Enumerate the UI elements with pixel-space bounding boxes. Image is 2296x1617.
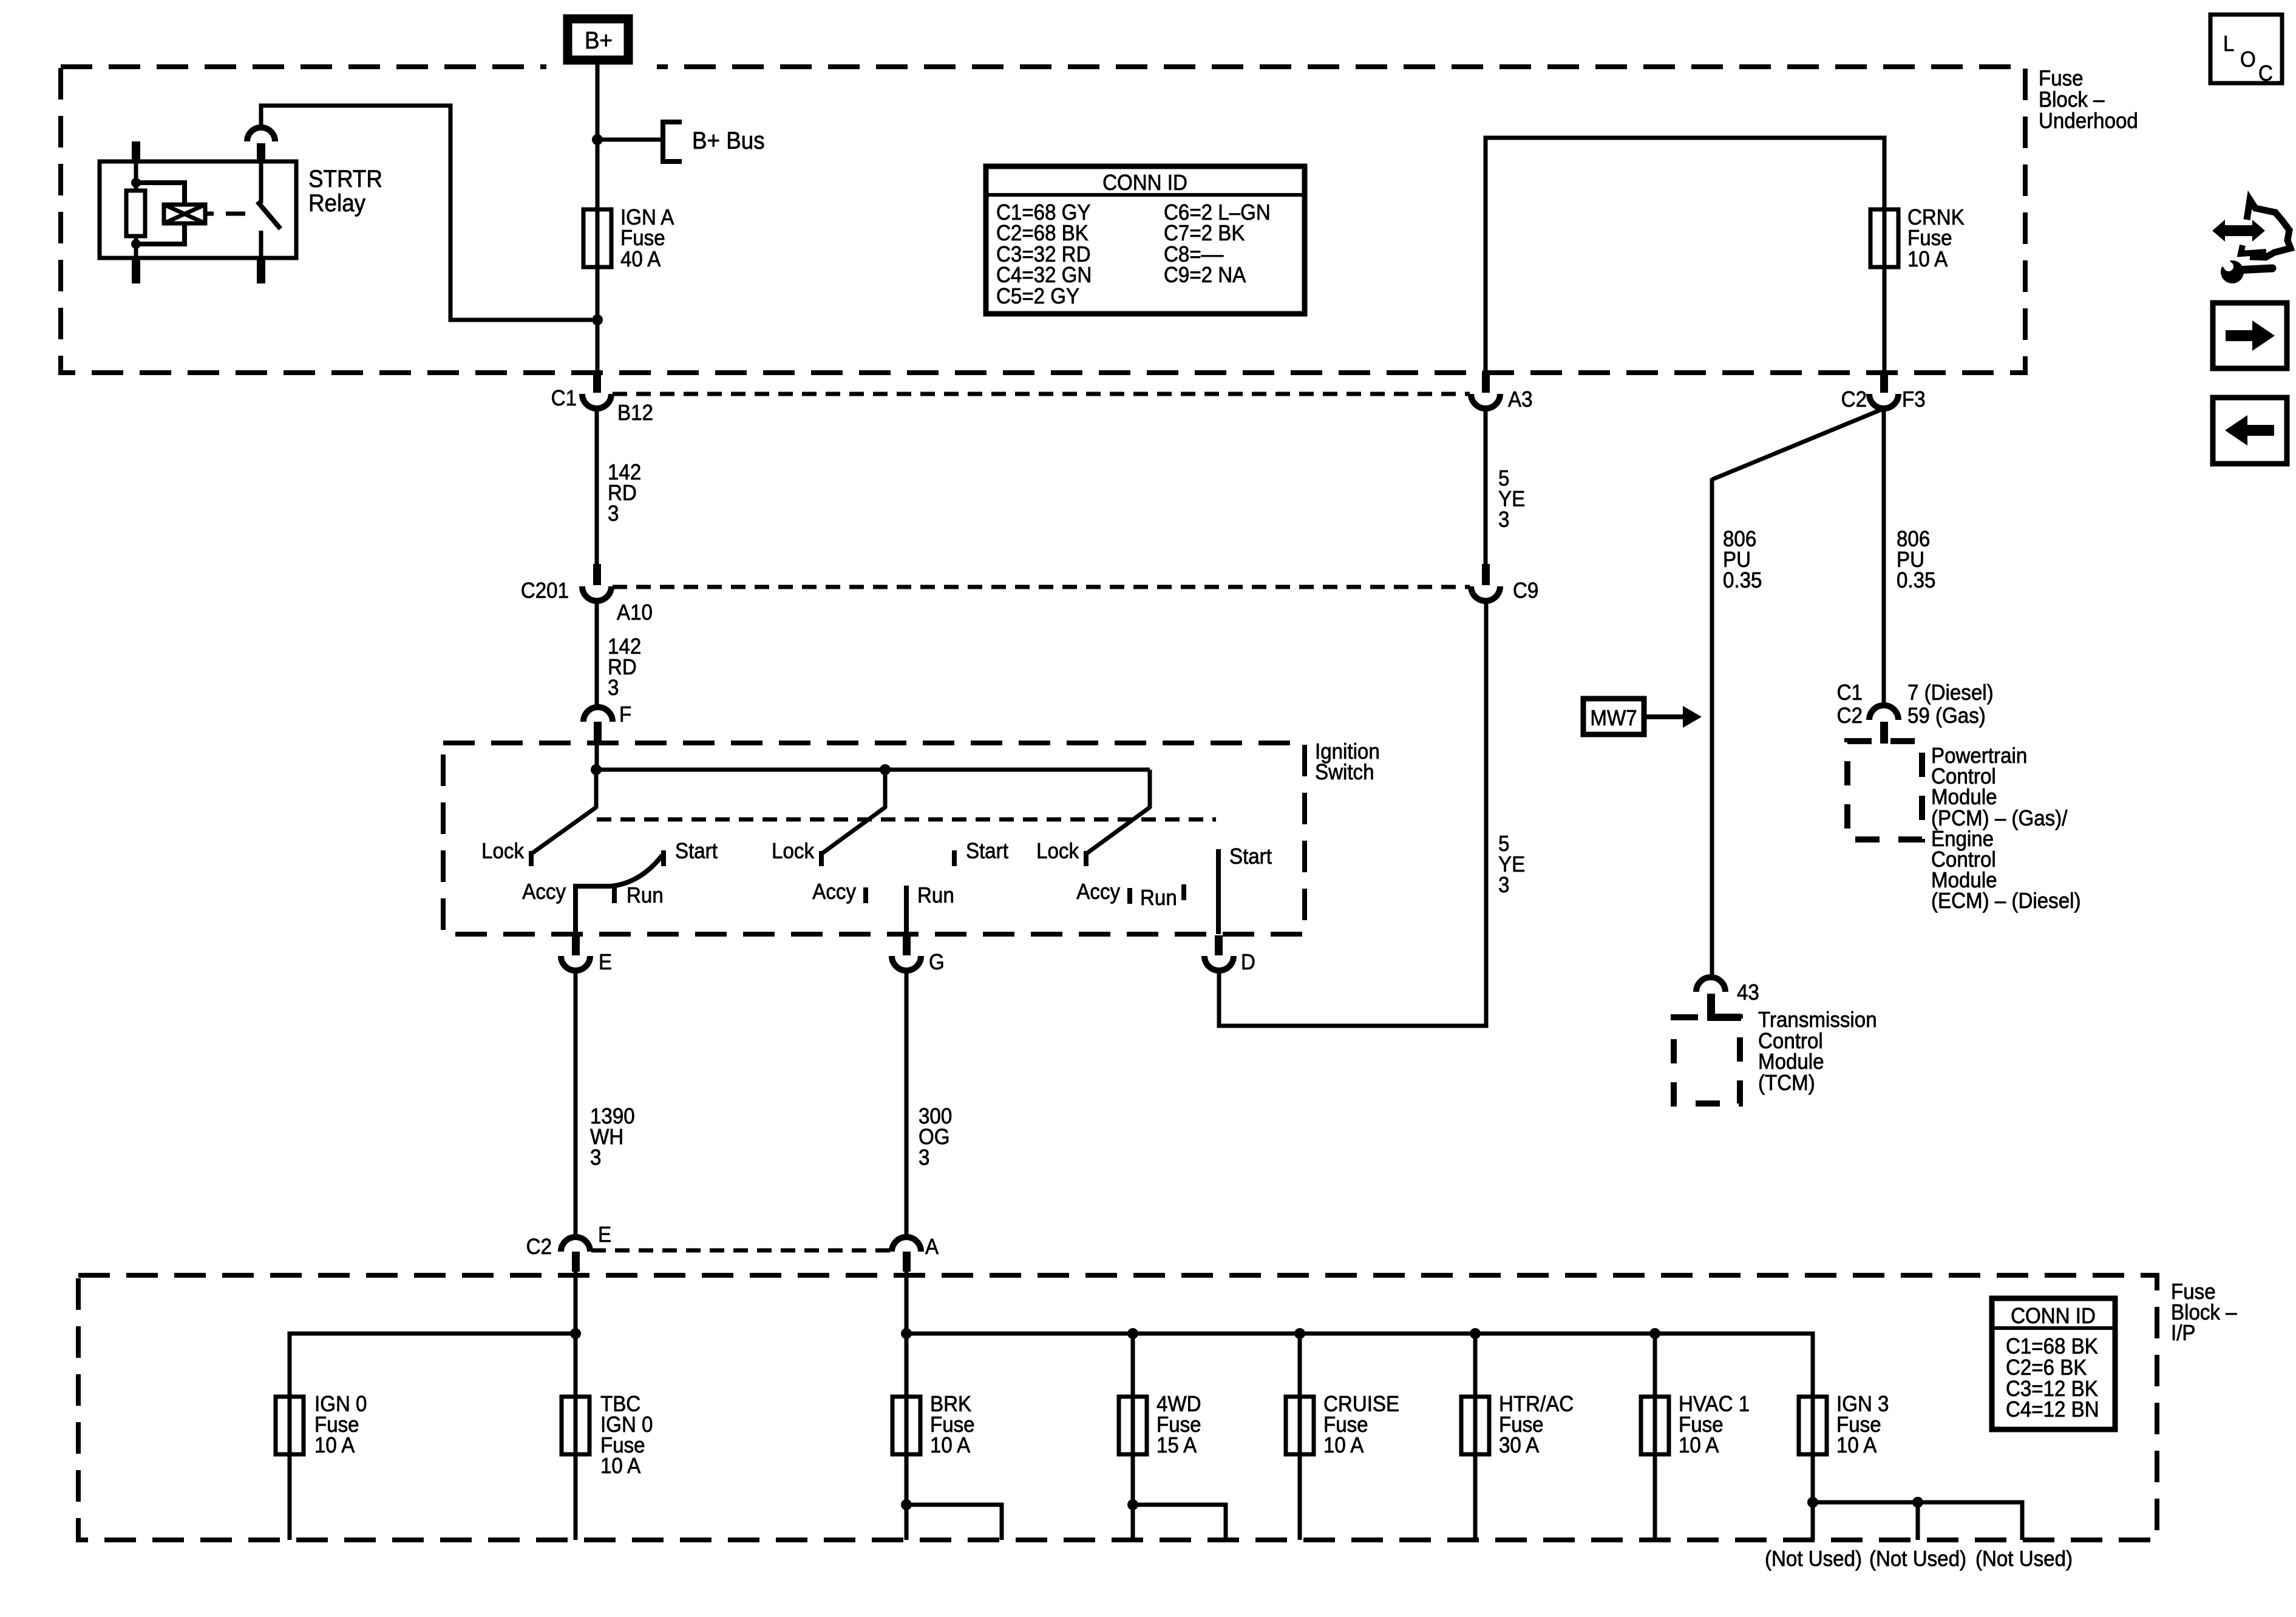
- icon wrench: [2235, 268, 2272, 270]
- relay internal wire left: [134, 161, 138, 191]
- connector C9 arc: [1471, 586, 1500, 601]
- svg-text:O: O: [2240, 48, 2256, 72]
- svg-text:10 A: 10 A: [600, 1454, 640, 1479]
- svg-text:L: L: [2223, 32, 2234, 56]
- wire IGN 3 below fuse: [1811, 1397, 1815, 1540]
- junction IGN 3 stub: [1807, 1497, 1818, 1508]
- wire IGN 3 stub horizontal: [1813, 1502, 2022, 1540]
- svg-text:Fuse: Fuse: [1907, 226, 1952, 251]
- junction HVAC 1: [1649, 1328, 1660, 1339]
- svg-text:C9: C9: [1513, 579, 1538, 603]
- relay switch blade: [257, 202, 280, 229]
- wire IGN A fuse to C1: [596, 209, 600, 373]
- wire A into I/P: [905, 1272, 909, 1334]
- label Transmission Control Module (TCM): [1758, 1008, 1877, 1096]
- wire label 142 RD 3 lower: [608, 635, 641, 700]
- label Powertrain Control Module: [1931, 744, 2080, 914]
- svg-text:C2: C2: [1837, 704, 1863, 728]
- svg-text:A10: A10: [617, 601, 653, 625]
- svg-text:(ECM) – (Diesel): (ECM) – (Diesel): [1931, 889, 2080, 914]
- connector A tick: [903, 1252, 911, 1272]
- wafer1 Lock contact tick: [529, 851, 534, 866]
- svg-text:15 A: 15 A: [1156, 1434, 1197, 1458]
- connector 43 (TCM) tick: [1707, 994, 1715, 1015]
- wafer3 rotor diagonal: [1087, 807, 1150, 853]
- wafer1 rotor diagonal: [532, 807, 596, 853]
- label Ignition Switch: [1315, 740, 1380, 785]
- wafer2 Lock contact tick: [819, 851, 824, 866]
- LOC nav box: [2210, 15, 2282, 86]
- svg-text:C2: C2: [1841, 388, 1867, 412]
- icon double arrow: [2212, 220, 2265, 242]
- svg-text:C201: C201: [521, 579, 569, 603]
- junction relay feed: [592, 314, 603, 325]
- wire HTR/AC below fuse: [1473, 1397, 1478, 1540]
- value label BRK Fuse 10 A: [930, 1392, 975, 1458]
- svg-text:Run: Run: [917, 884, 954, 908]
- svg-text:10 A: 10 A: [1836, 1434, 1877, 1458]
- wafer2 drop wire: [883, 770, 888, 808]
- connector E arc: [561, 956, 590, 971]
- fuse CRUISE: [1286, 1397, 1314, 1454]
- svg-text:Fuse: Fuse: [620, 226, 665, 251]
- value label TBC IGN 0 Fuse 10 A: [600, 1392, 653, 1479]
- connector in-line dotted C1 to A3: [613, 392, 1470, 396]
- wafer1 Start contact tick: [661, 850, 666, 866]
- relay coil: [164, 205, 205, 223]
- fuse 4WD: [1119, 1397, 1147, 1454]
- junction 4WD: [1127, 1328, 1138, 1339]
- connector in-line dotted C201 to C9: [613, 585, 1470, 589]
- wire label 5 YE 3 upper: [1498, 467, 1525, 532]
- wire label 142 RD 3 upper: [608, 461, 641, 526]
- wire C1 to C201 (142 RD): [595, 408, 599, 565]
- svg-text:C4=32 GN: C4=32 GN: [996, 263, 1092, 288]
- wafer2 rotor diagonal: [822, 807, 885, 853]
- svg-text:(Not Used): (Not Used): [1765, 1547, 1862, 1571]
- connector A3 tick: [1482, 371, 1490, 393]
- switch position dotted line: [597, 818, 1216, 822]
- ignition feed bus: [596, 768, 1150, 772]
- svg-text:STRTR: STRTR: [308, 166, 382, 193]
- wire CRUISE below fuse: [1298, 1397, 1302, 1540]
- mask under B+: [546, 62, 657, 72]
- wafer3 Run contact tick: [1181, 884, 1186, 900]
- relay pin 30 connector arc: [247, 127, 275, 141]
- TCM pin stub: [1711, 1013, 1741, 1017]
- connector D arc: [1204, 956, 1234, 971]
- fuse IGN 0: [276, 1397, 304, 1454]
- wire BRK below fuse: [905, 1397, 909, 1540]
- wire label 5 YE 3 lower: [1498, 832, 1525, 898]
- svg-text:3: 3: [1498, 508, 1509, 532]
- svg-text:Accy: Accy: [1076, 880, 1120, 904]
- svg-text:C1: C1: [551, 387, 577, 411]
- svg-text:10 A: 10 A: [930, 1434, 970, 1458]
- svg-text:C2=68 BK: C2=68 BK: [996, 222, 1089, 246]
- TCM module box: [1674, 1017, 1740, 1103]
- svg-text:C: C: [2258, 62, 2273, 86]
- svg-text:30 A: 30 A: [1499, 1434, 1539, 1458]
- fuse BRK: [892, 1397, 920, 1454]
- relay switch fixed contact top: [259, 161, 263, 203]
- wire 4WD stub: [1133, 1505, 1226, 1540]
- relay pin stub bottom-left: [132, 258, 140, 283]
- svg-text:10 A: 10 A: [1907, 248, 1948, 272]
- relay pin stub bottom-right: [257, 258, 265, 283]
- svg-text:CONN ID: CONN ID: [2011, 1304, 2096, 1329]
- svg-text:B+ Bus: B+ Bus: [692, 127, 765, 155]
- wire G to A (300 OG): [905, 970, 909, 1238]
- relay resistor: [126, 191, 145, 236]
- junction 4WD stub: [1127, 1499, 1138, 1510]
- svg-text:10 A: 10 A: [1323, 1434, 1364, 1458]
- svg-text:Start: Start: [966, 839, 1008, 864]
- connector 43 (TCM) arc: [1696, 977, 1725, 992]
- connector C2 E tick: [572, 1252, 580, 1272]
- svg-text:C1: C1: [1837, 681, 1863, 705]
- junction BRK stub: [901, 1499, 912, 1510]
- svg-text:MW7: MW7: [1590, 707, 1637, 731]
- svg-text:A: A: [925, 1235, 939, 1259]
- relay switch fixed contact bottom: [259, 231, 263, 258]
- connector A3 arc: [1471, 394, 1500, 408]
- wire coil bottom branch: [136, 223, 185, 244]
- svg-text:7 (Diesel): 7 (Diesel): [1907, 681, 1994, 705]
- wire HVAC 1 below fuse: [1653, 1397, 1657, 1540]
- svg-text:Fuse: Fuse: [2039, 67, 2084, 91]
- value label HVAC 1 Fuse 10 A: [1679, 1392, 1750, 1458]
- svg-text:C2=6 BK: C2=6 BK: [2006, 1356, 2087, 1380]
- value label CRNK Fuse 10 A: [1907, 206, 1965, 272]
- wire to B+ bus: [597, 138, 662, 142]
- wire A3 top horizontal: [1486, 138, 1884, 372]
- connector G arc: [892, 956, 921, 971]
- wafer1 drop wire: [594, 770, 599, 808]
- connector C201 arc: [582, 586, 611, 601]
- svg-text:Transmission: Transmission: [1758, 1008, 1877, 1032]
- wafer3 Start wiper wire to D: [1216, 849, 1221, 934]
- relay pin stub top-left: [132, 141, 140, 161]
- svg-text:3: 3: [608, 676, 619, 700]
- wafer1 Run contact tick: [612, 887, 617, 903]
- connector in-line dotted C2E to A: [591, 1249, 891, 1253]
- svg-text:59 (Gas): 59 (Gas): [1907, 704, 1986, 728]
- wire D to crank net: [1219, 601, 1486, 1026]
- wire coil top branch: [136, 183, 185, 205]
- svg-text:C4=12 BN: C4=12 BN: [2006, 1398, 2099, 1422]
- fuse block underhood box: [61, 67, 2025, 373]
- svg-text:0.35: 0.35: [1723, 569, 1762, 593]
- wafer1 wiper curve to Start: [611, 855, 662, 886]
- wire TBC branch: [574, 1334, 578, 1397]
- coil actuator dashes: [205, 212, 214, 216]
- svg-text:3: 3: [608, 502, 619, 526]
- value label IGN A Fuse 40 A: [620, 206, 674, 272]
- svg-text:Lock: Lock: [772, 839, 815, 864]
- I/P left bus: [290, 1334, 576, 1397]
- connector C1 C2 (PCM) arc: [1869, 705, 1898, 720]
- svg-text:Start: Start: [1229, 845, 1272, 869]
- svg-text:40 A: 40 A: [620, 248, 661, 272]
- wire label 1390 WH 3: [590, 1105, 635, 1170]
- wire diagonal F3 branch: [1712, 409, 1883, 480]
- wire label 806 PU 0.35 right: [1897, 527, 1935, 593]
- svg-text:(Not Used): (Not Used): [1975, 1547, 2073, 1571]
- wafer3 drop wire from bus corner: [1148, 770, 1152, 808]
- wire E to C2 E (1390 WH): [574, 970, 578, 1238]
- wire E into I/P: [574, 1272, 578, 1334]
- relay STRTR box: [100, 161, 296, 258]
- junction wafer1: [591, 764, 602, 775]
- wire label 806 PU 0.35 left: [1723, 527, 1762, 593]
- svg-text:10 A: 10 A: [314, 1434, 355, 1458]
- wire HVAC 1 branch: [1653, 1334, 1657, 1397]
- value label 4WD Fuse 15 A: [1156, 1392, 1201, 1458]
- svg-text:Lock: Lock: [1036, 839, 1079, 864]
- connector E tick: [572, 935, 580, 955]
- svg-text:10 A: 10 A: [1679, 1434, 1719, 1458]
- connector C1 C2 (PCM) tick: [1880, 722, 1888, 744]
- wire B+ down to IGN A fuse: [596, 64, 600, 209]
- svg-text:(Not Used): (Not Used): [1869, 1547, 1966, 1571]
- fuse IGN 3: [1799, 1397, 1827, 1454]
- svg-text:Run: Run: [627, 884, 664, 908]
- connector C201 tick: [593, 564, 601, 585]
- svg-text:Module: Module: [1931, 785, 1997, 810]
- wire CRUISE branch: [1298, 1334, 1302, 1397]
- wire F into switch: [595, 742, 599, 770]
- B+ bus bar: [663, 122, 682, 161]
- ignition switch box: [443, 743, 1305, 934]
- wire label 300 OG 3: [919, 1105, 952, 1170]
- connector C2 E arc: [561, 1237, 590, 1252]
- svg-text:C5=2 GY: C5=2 GY: [996, 285, 1079, 309]
- svg-text:Switch: Switch: [1315, 761, 1374, 785]
- wafer3 Lock contact tick: [1084, 851, 1089, 866]
- junction HTR/AC: [1470, 1328, 1481, 1339]
- svg-text:Start: Start: [675, 839, 718, 864]
- svg-text:43: 43: [1737, 981, 1759, 1005]
- svg-text:3: 3: [919, 1146, 929, 1170]
- svg-text:C2: C2: [526, 1235, 552, 1259]
- junction B+ bus: [592, 134, 603, 145]
- svg-text:A3: A3: [1508, 388, 1532, 412]
- svg-text:E: E: [599, 951, 612, 975]
- svg-text:B12: B12: [617, 401, 653, 425]
- svg-text:C7=2 BK: C7=2 BK: [1164, 222, 1245, 246]
- label Fuse Block - I/P: [2171, 1280, 2237, 1346]
- wire IGN 0 to box edge: [288, 1397, 292, 1540]
- connector C1 tick: [593, 371, 601, 393]
- svg-text:E: E: [598, 1223, 611, 1247]
- connector C9 tick: [1482, 564, 1490, 585]
- value label HTR/AC Fuse 30 A: [1499, 1392, 1574, 1458]
- connector G tick: [903, 935, 911, 955]
- fuse IGN A 40A: [583, 209, 611, 267]
- wafer2 Start contact tick: [952, 850, 957, 866]
- svg-text:Run: Run: [1140, 886, 1177, 910]
- wafer1 wiper wire to E: [576, 886, 611, 934]
- PCM module box: [1847, 741, 1922, 839]
- power symbol B+: [568, 19, 628, 60]
- vehicle service icon: [2212, 200, 2291, 283]
- wafer2 Accy contact tick: [863, 887, 868, 903]
- fuse HTR/AC: [1461, 1397, 1489, 1454]
- value label CRUISE Fuse 10 A: [1323, 1392, 1399, 1458]
- relay internal wire left lower: [134, 236, 138, 258]
- I/P right bus: [906, 1334, 1813, 1397]
- wire 806 PU left vertical: [1710, 478, 1714, 978]
- junction coil top: [131, 178, 141, 188]
- wire 4WD branch: [1131, 1334, 1135, 1397]
- svg-text:(TCM): (TCM): [1758, 1071, 1815, 1096]
- wafer2 wiper wire to G: [904, 886, 909, 934]
- fuse CRNK 10A: [1870, 209, 1898, 267]
- svg-text:Module: Module: [1758, 1050, 1824, 1074]
- MW7 arrow: [1646, 714, 1683, 719]
- svg-text:Accy: Accy: [812, 880, 856, 904]
- wire TBC to box edge: [574, 1397, 578, 1540]
- junction not used mid: [1912, 1497, 1923, 1508]
- junction wafer2: [880, 764, 891, 775]
- fuse HVAC 1: [1641, 1397, 1669, 1454]
- wire not used mid drop: [1916, 1502, 1920, 1540]
- svg-text:CONN ID: CONN ID: [1102, 171, 1187, 195]
- nav arrow box left: [2213, 398, 2287, 464]
- junction BRK: [901, 1328, 912, 1339]
- svg-text:3: 3: [590, 1146, 601, 1170]
- wire A3 to C9 (5 YE): [1484, 408, 1488, 565]
- connector A arc: [892, 1237, 921, 1252]
- wire BRK branch: [905, 1334, 909, 1397]
- value label IGN 3 Fuse 10 A: [1836, 1392, 1889, 1458]
- wire BRK stub: [906, 1505, 1002, 1540]
- fuse block I/P box: [78, 1275, 2157, 1540]
- connector C2 F3 tick: [1880, 371, 1888, 393]
- svg-text:3: 3: [1498, 873, 1509, 898]
- svg-text:D: D: [1241, 951, 1255, 975]
- value label IGN 0 Fuse 10 A: [314, 1392, 367, 1458]
- svg-text:B+: B+: [585, 27, 613, 55]
- wire C201 to F (142 RD): [595, 601, 599, 708]
- svg-text:Lock: Lock: [481, 839, 525, 864]
- svg-text:I/P: I/P: [2171, 1321, 2195, 1346]
- label Fuse Block - Underhood: [2039, 67, 2138, 134]
- svg-text:0.35: 0.35: [1897, 569, 1935, 593]
- nav arrow box right: [2213, 303, 2287, 368]
- junction coil bottom: [131, 239, 141, 249]
- fuse TBC IGN 0: [562, 1397, 589, 1454]
- CONN ID table bottom: [1992, 1298, 2115, 1429]
- connector F tick: [594, 722, 602, 742]
- svg-text:C9=2 NA: C9=2 NA: [1164, 263, 1246, 288]
- svg-text:Block –: Block –: [2039, 88, 2105, 112]
- wafer3 Accy contact tick: [1127, 888, 1132, 904]
- svg-text:G: G: [929, 951, 945, 975]
- junction CRUISE: [1294, 1328, 1305, 1339]
- svg-text:Accy: Accy: [522, 880, 566, 904]
- label STRTR Relay: [308, 166, 382, 217]
- wire relay to junction: [261, 106, 592, 320]
- svg-text:F3: F3: [1902, 388, 1926, 412]
- junction TBC: [570, 1328, 581, 1339]
- icon zigzag: [2241, 245, 2266, 254]
- svg-text:Underhood: Underhood: [2039, 109, 2138, 134]
- wire F3 down (806 PU right): [1882, 408, 1886, 706]
- connector F arc: [583, 707, 613, 722]
- connector C1 arc: [582, 394, 611, 408]
- wire 4WD below fuse: [1131, 1397, 1135, 1540]
- connector C2 F3 arc: [1869, 394, 1898, 408]
- icon car outline: [2247, 200, 2291, 257]
- svg-text:C1=68 BK: C1=68 BK: [2006, 1335, 2098, 1359]
- MW7 box: [1583, 699, 1644, 734]
- wire HTR/AC branch: [1473, 1334, 1478, 1397]
- relay pin 30 tick: [257, 143, 265, 161]
- CONN ID table top: [986, 166, 1305, 314]
- wire CRNK fuse to F3: [1883, 209, 1887, 373]
- connector D tick: [1215, 935, 1223, 955]
- svg-text:F: F: [619, 703, 631, 727]
- svg-text:Relay: Relay: [308, 190, 366, 217]
